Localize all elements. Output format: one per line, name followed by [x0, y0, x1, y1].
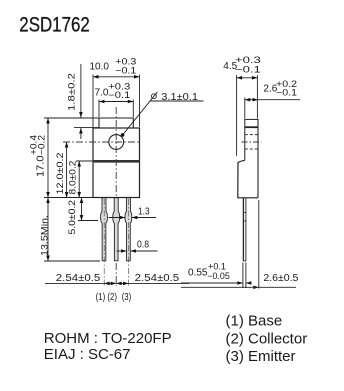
- front view: tab top section: [99, 118, 133, 128]
- svg-text:−0.2: −0.2: [36, 135, 46, 155]
- svg-text:−0.1: −0.1: [276, 88, 297, 98]
- svg-text:(2): (2): [107, 292, 117, 303]
- svg-text:(1) Base: (1) Base: [226, 313, 283, 330]
- vertical centerline of package: [115, 107, 117, 286]
- svg-text:0.8: 0.8: [137, 240, 149, 251]
- pin 1 centerline: [103, 199, 105, 286]
- svg-text:2.54±0.5: 2.54±0.5: [56, 273, 101, 284]
- dim 1.3 (lead bulge width): [109, 217, 126, 219]
- dim 13.5 Min. (lead length): [47, 198, 49, 262]
- svg-text:2.6±0.5: 2.6±0.5: [263, 273, 298, 284]
- pin 2 (collector lead): [113, 198, 120, 261]
- svg-text:12.0±0.2: 12.0±0.2: [55, 153, 66, 195]
- dim 12.0 +/-0.2 (hole center height): [66, 142, 68, 198]
- svg-text:1.3: 1.3: [138, 207, 150, 218]
- dim 4.5 +0.3/-0.1 (package thickness): [237, 75, 258, 156]
- lead crimp ticks: [243, 212, 246, 214]
- svg-text:1.8±0.2: 1.8±0.2: [67, 73, 78, 111]
- side view: hidden hole lines: [245, 134, 258, 136]
- phi diameter symbol: [152, 94, 157, 99]
- dim 0.55 +0.1/-0.05 (lead thickness): [181, 263, 252, 289]
- dim 5.0 +/-0.2 (lead shoulder): [81, 198, 83, 221]
- dim 2.54 +/-0.5 pitch (left and right): [45, 282, 189, 284]
- svg-text:2.54±0.5: 2.54±0.5: [135, 273, 180, 284]
- svg-text:13.5Min.: 13.5Min.: [39, 215, 50, 256]
- svg-text:5.0±0.2: 5.0±0.2: [67, 200, 78, 235]
- svg-text:0.55: 0.55: [188, 268, 208, 279]
- svg-text:(3) Emitter: (3) Emitter: [226, 348, 296, 365]
- front view: body outline: [93, 128, 140, 198]
- side view: tab bottom thick line: [245, 126, 258, 128]
- pin 1 (base lead): [101, 198, 108, 261]
- side view: top tab section: [245, 119, 258, 127]
- dim 2.6 +/-0.5 (lead offset): [258, 200, 260, 289]
- dim 7.0 +0.3/-0.1 (tab width): [99, 100, 133, 118]
- hole leader line: [123, 92, 158, 135]
- svg-text:8.0±0.2: 8.0±0.2: [68, 161, 79, 195]
- svg-text:7.0: 7.0: [95, 88, 109, 99]
- dim 10.0 +0.3/-0.1 (body width): [93, 75, 140, 128]
- pin 3 (emitter lead): [125, 198, 132, 261]
- side view: lead: [242, 198, 244, 261]
- dim 0.8 (lead width): [117, 250, 127, 252]
- svg-text:3.1±0.1: 3.1±0.1: [161, 92, 198, 103]
- dim 2.6 +0.2/-0.1 (upper thickness): [245, 98, 300, 119]
- side view: step and lower body: [238, 160, 258, 198]
- svg-text:10.0: 10.0: [90, 62, 110, 73]
- svg-text:−0.1: −0.1: [108, 90, 130, 100]
- front view: step line (thick): [93, 160, 140, 163]
- pin 3 centerline: [128, 199, 130, 286]
- svg-text:−0.05: −0.05: [207, 271, 230, 281]
- svg-text:2SD1762: 2SD1762: [19, 12, 90, 36]
- svg-text:EIAJ : SC-67: EIAJ : SC-67: [44, 346, 131, 363]
- dim 8.0 +/-0.2 (step height): [78, 161, 80, 198]
- hole leader dot: [121, 133, 125, 137]
- horizontal centerline through hole: [63, 141, 141, 143]
- svg-text:(2) Collector: (2) Collector: [226, 331, 308, 348]
- svg-text:−0.1: −0.1: [235, 65, 261, 75]
- side view: upper body sides: [244, 127, 246, 160]
- mounting hole circle: [109, 135, 124, 150]
- dim 17.0 +0.4/-0.2 (body height): [47, 118, 49, 198]
- svg-text:(1): (1): [96, 292, 106, 303]
- svg-text:(3): (3): [122, 292, 132, 303]
- side view: hole centerline: [242, 141, 262, 143]
- dim 1.8 +/-0.2 (tab height): [44, 64, 99, 139]
- svg-text:ROHM : TO-220FP: ROHM : TO-220FP: [44, 330, 172, 347]
- svg-text:−0.1: −0.1: [115, 66, 136, 76]
- svg-text:17.0: 17.0: [35, 155, 46, 177]
